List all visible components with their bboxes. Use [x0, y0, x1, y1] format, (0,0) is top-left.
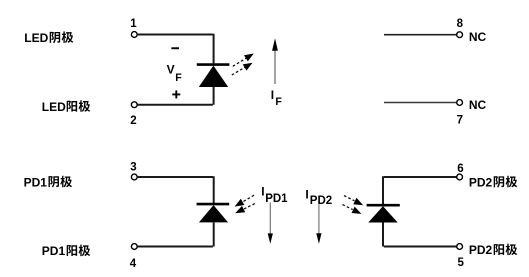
svg-text:3: 3: [130, 161, 136, 173]
svg-text:NC: NC: [469, 30, 487, 44]
svg-text:F: F: [175, 72, 182, 84]
label PD1阴极: [24, 175, 72, 189]
PD1 incident arrow upper: [235, 195, 254, 206]
label VF: [167, 63, 183, 84]
LED D1 triangle: [199, 66, 228, 87]
photodiode PD2 triangle: [368, 206, 397, 222]
svg-text:F: F: [275, 96, 282, 108]
svg-text:PD2: PD2: [469, 243, 493, 257]
wire pin 8 NC: [384, 34, 457, 36]
svg-text:PD2: PD2: [310, 195, 332, 207]
IF current arrow: [272, 38, 278, 84]
photodiode PD1 triangle: [199, 205, 228, 222]
label IPD2: [305, 187, 332, 207]
label PD2阳极: [469, 243, 517, 257]
svg-text:LED: LED: [24, 31, 48, 45]
pin 6 terminal: [457, 174, 463, 180]
PD2 incident arrow upper: [344, 196, 363, 206]
pin 4 terminal: [131, 244, 137, 250]
pin 8 terminal: [457, 32, 463, 38]
pin 2 terminal: [131, 102, 137, 108]
label PD2阴极: [469, 175, 517, 189]
svg-text:I: I: [305, 187, 308, 201]
svg-text:1: 1: [130, 18, 137, 30]
wire pin6 to PD2 cathode: [383, 176, 457, 204]
svg-text:PD1: PD1: [42, 244, 66, 258]
photodiode PD2 cathode bar: [367, 204, 400, 207]
wire PD2 anode to pin5: [383, 223, 457, 247]
label PD1阳极: [42, 244, 90, 258]
PD1 incident arrow lower: [235, 204, 255, 214]
label LED阴极: [24, 31, 73, 45]
wire pin3 to PD1 cathode: [138, 176, 214, 203]
pin 3 terminal: [131, 174, 137, 180]
pin 1 terminal: [131, 32, 137, 38]
IPD2 current arrow: [316, 204, 321, 244]
svg-text:V: V: [167, 63, 175, 77]
svg-text:4: 4: [130, 258, 137, 270]
plus sign: [172, 90, 180, 98]
svg-text:5: 5: [458, 257, 465, 269]
svg-text:I: I: [271, 88, 274, 102]
label IPD1: [261, 184, 288, 205]
svg-text:PD1: PD1: [24, 175, 48, 189]
PD2 incident arrow lower: [343, 205, 362, 214]
svg-text:PD2: PD2: [469, 175, 493, 189]
wire LED anode to pin2: [138, 87, 214, 105]
LED emission arrow upper: [233, 54, 254, 67]
svg-text:8: 8: [457, 18, 464, 30]
LED emission arrow lower: [232, 63, 253, 75]
photodiode PD1 cathode bar: [197, 203, 230, 206]
IPD1 current arrow: [268, 203, 273, 244]
svg-text:PD1: PD1: [265, 193, 288, 205]
pin 5 terminal: [457, 244, 463, 250]
wire pin 7 NC: [384, 102, 457, 104]
svg-text:LED: LED: [42, 100, 66, 114]
wire PD1 anode to pin4: [138, 222, 214, 246]
svg-text:2: 2: [130, 115, 136, 127]
label IF: [271, 88, 283, 108]
minus sign: [171, 47, 179, 49]
svg-text:6: 6: [457, 163, 463, 175]
pin 7 terminal: [457, 100, 463, 106]
svg-text:I: I: [261, 184, 264, 198]
wire pin1 to LED cathode: [138, 34, 214, 64]
LED D1 cathode bar: [197, 63, 230, 66]
label LED阳极: [42, 100, 90, 114]
svg-text:NC: NC: [469, 98, 487, 112]
svg-text:7: 7: [457, 115, 463, 127]
